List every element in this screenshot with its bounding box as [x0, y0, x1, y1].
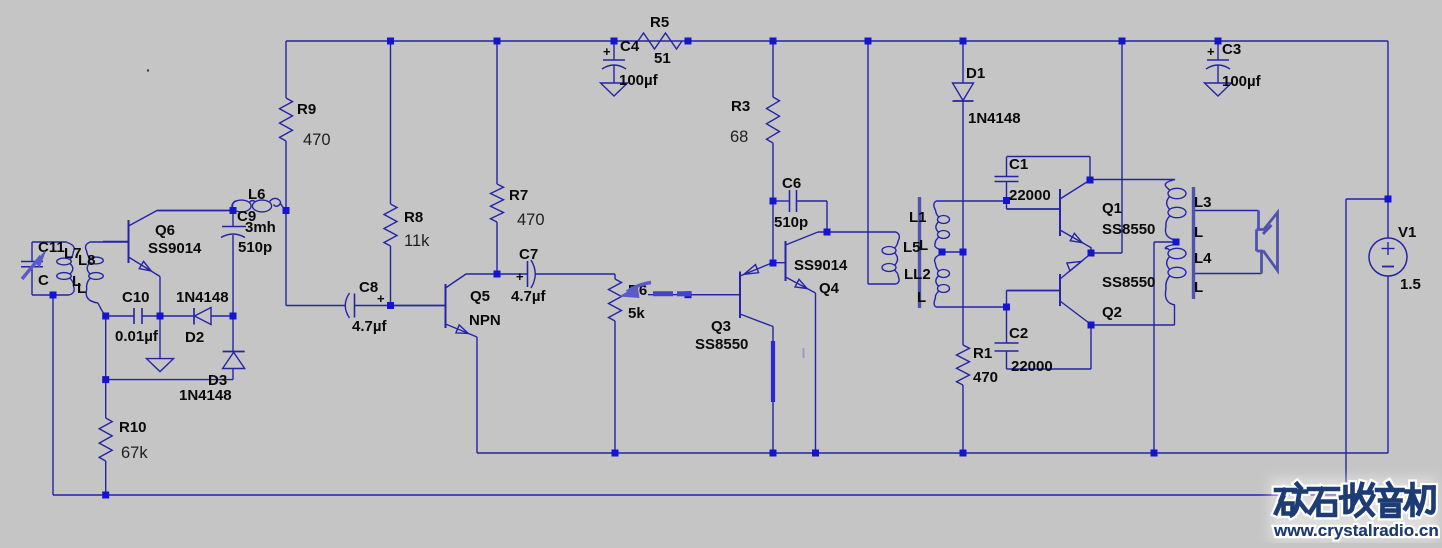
svg-text:R5: R5	[650, 14, 669, 31]
svg-text:Q4: Q4	[819, 280, 840, 297]
svg-text:C2: C2	[1009, 325, 1028, 342]
svg-text:1N4148: 1N4148	[968, 110, 1021, 127]
svg-text:4.7µf: 4.7µf	[352, 318, 387, 335]
svg-text:C8: C8	[359, 279, 378, 296]
svg-text:1N4148: 1N4148	[176, 289, 229, 306]
svg-text:SS9014: SS9014	[148, 240, 202, 257]
svg-text:L: L	[1194, 224, 1203, 241]
svg-text:SS8550: SS8550	[695, 336, 748, 353]
svg-text:3mh: 3mh	[245, 219, 276, 236]
svg-text:Q5: Q5	[470, 288, 490, 305]
svg-text:R8: R8	[404, 209, 423, 226]
svg-text:4.7µf: 4.7µf	[511, 288, 546, 305]
svg-text:L5: L5	[903, 239, 921, 256]
svg-text:L4: L4	[1194, 250, 1212, 267]
svg-text:67k: 67k	[121, 444, 148, 462]
svg-text:R7: R7	[509, 187, 528, 204]
svg-text:SS9014: SS9014	[794, 257, 848, 274]
svg-text:C3: C3	[1222, 41, 1241, 58]
svg-text:C: C	[38, 272, 49, 289]
svg-text:51: 51	[654, 50, 671, 67]
svg-text:68: 68	[730, 128, 748, 146]
svg-text:C1: C1	[1009, 156, 1028, 173]
svg-text:C6: C6	[782, 175, 801, 192]
svg-text:L8: L8	[78, 252, 96, 269]
svg-text:L: L	[917, 289, 926, 306]
svg-text:Q1: Q1	[1102, 200, 1122, 217]
svg-text:L: L	[1194, 279, 1203, 296]
svg-text:D2: D2	[185, 329, 204, 346]
svg-text:Q6: Q6	[155, 222, 175, 239]
svg-text:11k: 11k	[404, 232, 430, 250]
svg-text:+: +	[1207, 44, 1215, 59]
svg-text:+: +	[516, 269, 524, 284]
svg-text:510p: 510p	[238, 239, 272, 256]
svg-text:C4: C4	[620, 38, 640, 55]
svg-text:+: +	[603, 44, 611, 59]
svg-text:470: 470	[517, 211, 545, 229]
svg-text:Q2: Q2	[1102, 304, 1122, 321]
svg-text:L: L	[919, 237, 928, 254]
svg-text:SS8550: SS8550	[1102, 274, 1155, 291]
svg-text:R10: R10	[119, 419, 147, 436]
svg-text:22000: 22000	[1009, 187, 1051, 204]
svg-text:L6: L6	[248, 186, 266, 203]
svg-text:100µf: 100µf	[619, 72, 659, 89]
svg-text:510p: 510p	[774, 214, 808, 231]
svg-text:C11: C11	[38, 239, 65, 256]
svg-text:Q3: Q3	[711, 318, 731, 335]
svg-text:R9: R9	[297, 101, 316, 118]
svg-text:L3: L3	[1194, 194, 1212, 211]
svg-text:V1: V1	[1398, 224, 1416, 241]
svg-text:D1: D1	[966, 65, 985, 82]
svg-text:1N4148: 1N4148	[179, 387, 232, 404]
svg-text:R1: R1	[973, 345, 992, 362]
svg-text:C10: C10	[122, 289, 150, 306]
svg-text:R3: R3	[731, 98, 750, 115]
svg-text:0.01µf: 0.01µf	[115, 328, 159, 345]
svg-text:22000: 22000	[1011, 358, 1053, 375]
svg-text:470: 470	[303, 131, 331, 149]
svg-text:+: +	[377, 291, 385, 306]
svg-text:L1: L1	[909, 209, 927, 226]
svg-text:SS8550: SS8550	[1102, 221, 1155, 238]
svg-text:NPN: NPN	[469, 312, 501, 329]
svg-text:www.crystalradio.cn: www.crystalradio.cn	[1273, 521, 1439, 540]
svg-text:C7: C7	[519, 246, 538, 263]
svg-text:100µf: 100µf	[1222, 73, 1262, 90]
svg-text:L: L	[77, 280, 86, 297]
svg-text:5k: 5k	[628, 305, 645, 322]
svg-text:LL2: LL2	[904, 266, 931, 283]
svg-text:1.5: 1.5	[1400, 276, 1421, 293]
svg-text:470: 470	[973, 369, 998, 386]
